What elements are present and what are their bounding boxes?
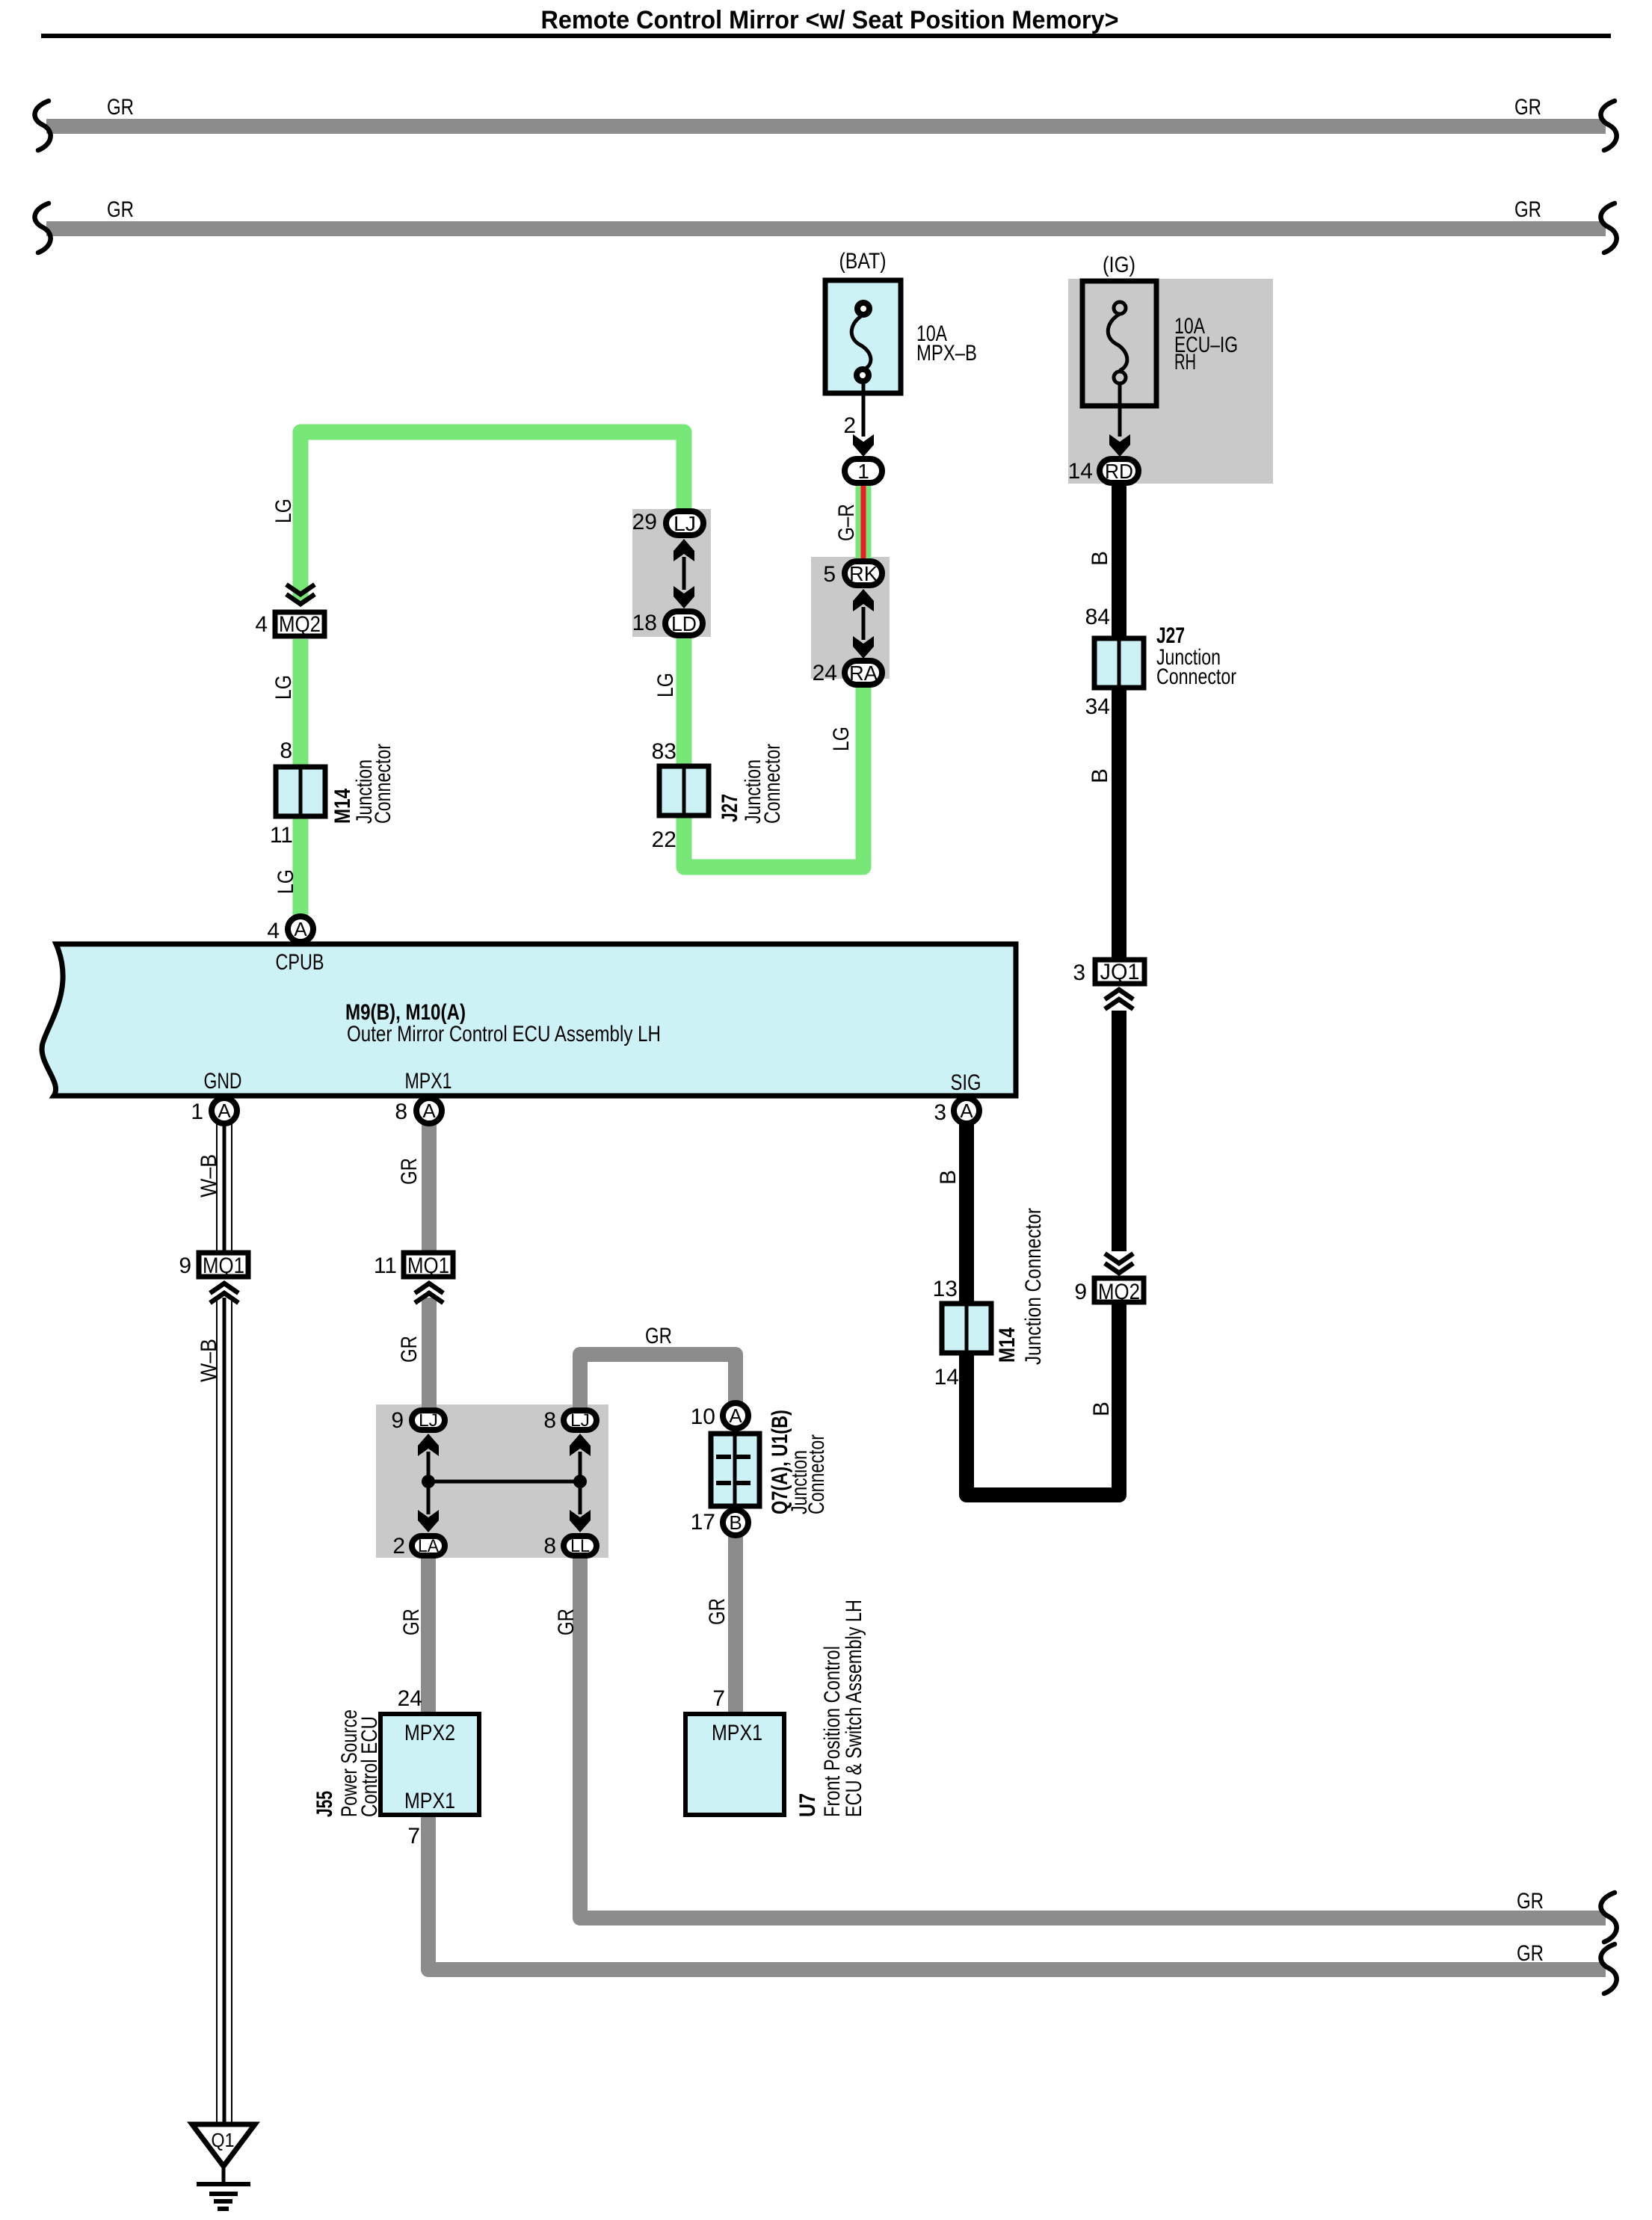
- svg-text:11: 11: [374, 1254, 397, 1278]
- label GR bus1 right: [1514, 95, 1541, 120]
- pin 14 M14: [934, 1365, 959, 1390]
- svg-text:8: 8: [543, 1534, 556, 1558]
- svg-text:Connector: Connector: [760, 744, 785, 824]
- svg-text:MPX–B: MPX–B: [916, 341, 977, 366]
- svg-text:2: 2: [392, 1534, 405, 1558]
- pin 8 LL: [543, 1534, 556, 1558]
- pin 8 LJ: [543, 1408, 556, 1433]
- svg-text:(IG): (IG): [1103, 253, 1135, 277]
- svg-text:MQ2: MQ2: [1098, 1280, 1140, 1304]
- double arrow RK to RA: [853, 589, 874, 659]
- pin 18 LD: [632, 611, 657, 635]
- svg-text:GR: GR: [554, 1609, 579, 1635]
- svg-text:22: 22: [652, 827, 676, 852]
- wire LG: MQ2(4) to CPUB A(4): [293, 639, 309, 918]
- label B vertical J27-JQ1: [1088, 768, 1112, 783]
- svg-text:8: 8: [280, 739, 292, 763]
- pin 83 J27: [652, 739, 676, 764]
- label A in circle (1): [218, 1100, 231, 1122]
- wire GR: LA(2) down to J55 MPX2: [421, 1555, 436, 1714]
- svg-text:17: 17: [691, 1510, 715, 1535]
- pin circle B(17): [723, 1510, 748, 1535]
- svg-text:Connector: Connector: [371, 744, 395, 824]
- svg-text:GR: GR: [1514, 95, 1541, 120]
- pin circle A(8) MPX1: [416, 1098, 442, 1123]
- shaded block around IG fuse: [1068, 279, 1273, 484]
- svg-text:GR: GR: [397, 1336, 422, 1363]
- wire GR: LJ(8) up, right, down to Q7 A(10): [580, 1354, 736, 1413]
- label GR vertical J55 wire: [399, 1609, 424, 1635]
- double chevron into MQ2(4): [286, 585, 315, 604]
- pin 29 LJ: [632, 510, 657, 534]
- double arrow LJ to LD: [674, 539, 694, 608]
- arrow into connector 1: [853, 434, 874, 457]
- connector oval LJ pin 9: [412, 1410, 445, 1430]
- pin 13 M14: [933, 1277, 958, 1301]
- svg-text:9: 9: [1074, 1280, 1087, 1304]
- ground Q1: [192, 2124, 255, 2209]
- wire GR: J55 MPX1(7) down, right to lower bus: [428, 1815, 1606, 1970]
- label B vertical RD-J27: [1088, 551, 1112, 566]
- svg-text:7: 7: [712, 1686, 725, 1711]
- label MQ1 (9): [203, 1254, 244, 1278]
- pin circle A(3) SIG: [954, 1098, 979, 1123]
- label RK: [849, 562, 878, 585]
- junction connector J27 (83/22): [659, 766, 709, 815]
- label MPX1 J55: [404, 1789, 455, 1813]
- label M14 Junction Connector vertical lower: [995, 1208, 1046, 1365]
- svg-text:MQ1: MQ1: [407, 1254, 449, 1278]
- svg-text:LG: LG: [653, 673, 678, 697]
- pin 34 J27: [1085, 694, 1110, 719]
- svg-text:Connector: Connector: [1156, 665, 1236, 689]
- label LG vertical below MQ2: [271, 675, 296, 700]
- svg-text:RK: RK: [849, 562, 878, 585]
- pin 3 JQ1: [1073, 961, 1085, 985]
- svg-text:3: 3: [934, 1100, 946, 1125]
- svg-text:Q1: Q1: [212, 2129, 235, 2151]
- label LL: [570, 1536, 590, 1556]
- connector box MQ2 pin 9: [1094, 1278, 1144, 1302]
- svg-text:B: B: [936, 1170, 961, 1185]
- label GR vertical below MQ1(11): [397, 1336, 422, 1363]
- pin 24 RA: [813, 661, 837, 685]
- label A in circle (4): [294, 918, 307, 940]
- connector box MQ1 pin 9: [199, 1253, 248, 1277]
- wire GR bus top 1: [46, 119, 1606, 134]
- tap wire between branches: [428, 1480, 580, 1484]
- label SIG: [951, 1070, 981, 1095]
- label B vertical SIG wire: [936, 1170, 961, 1185]
- double chevron below MQ1(11): [415, 1283, 443, 1303]
- label M9(B), M10(A): [345, 1000, 466, 1025]
- svg-text:14: 14: [934, 1365, 959, 1390]
- connector box MQ1 pin 11: [404, 1253, 453, 1277]
- break symbol lower bus GR upper right: [1601, 1893, 1617, 1942]
- pin 22 J27: [652, 827, 676, 852]
- svg-text:Remote Control Mirror <w/ Seat: Remote Control Mirror <w/ Seat Position …: [541, 6, 1119, 34]
- label LD: [671, 612, 697, 635]
- connector oval RD pin 14: [1100, 459, 1138, 483]
- label Outer Mirror Control ECU Assembly LH: [347, 1022, 661, 1046]
- svg-text:LJ: LJ: [570, 1410, 590, 1431]
- label 1 in oval: [857, 460, 869, 483]
- svg-text:18: 18: [632, 611, 657, 635]
- label J27 Junction Connector vertical: [718, 744, 785, 824]
- label GR lower bus upper: [1517, 1889, 1544, 1914]
- svg-text:3: 3: [1073, 961, 1085, 985]
- wire GR: LL(8) down, right to lower bus: [580, 1555, 1606, 1918]
- connector oval LJ pin 8: [564, 1410, 597, 1430]
- svg-text:(BAT): (BAT): [839, 249, 887, 274]
- svg-text:J27: J27: [718, 794, 742, 822]
- svg-text:Control ECU: Control ECU: [357, 1716, 382, 1817]
- svg-text:Junction Connector: Junction Connector: [1021, 1208, 1046, 1365]
- svg-text:10: 10: [691, 1405, 715, 1429]
- label GR vertical LL wire: [554, 1609, 579, 1635]
- svg-text:MPX2: MPX2: [404, 1721, 455, 1745]
- ECU box M9/M10 Outer Mirror Control ECU: [42, 944, 1016, 1096]
- label A in circle (3): [960, 1100, 973, 1122]
- label LA: [418, 1536, 439, 1556]
- wire B: below JQ1 down, left, up to SIG A(3): [967, 1011, 1119, 1495]
- wire GR bus top 2: [46, 221, 1606, 236]
- connector oval 1: [845, 459, 882, 483]
- wire LG: MQ2 chevron, up, across, down to LJ29: [300, 432, 684, 602]
- pin circle A(4) CPUB: [288, 916, 313, 942]
- svg-text:GR: GR: [1514, 197, 1541, 222]
- pin 10 Q7: [691, 1405, 715, 1429]
- label MPX1 pin: [405, 1069, 452, 1094]
- fuse ECU-IG (IG) box: [1082, 281, 1156, 437]
- svg-text:GR: GR: [397, 1158, 422, 1185]
- label M14 Junction Connector vertical: [330, 744, 395, 824]
- shaded block around LJ/LA/LJ/LL connector group: [376, 1405, 608, 1558]
- wire GR: below MQ1(11) to LJ(9): [422, 1298, 437, 1413]
- label 10A ECU-IG RH: [1174, 314, 1238, 374]
- junction connector M14 (8/11): [276, 767, 325, 816]
- double arrow LJ(9) to LA(2) with tap: [418, 1434, 439, 1532]
- connector oval RK pin 5: [845, 561, 882, 585]
- connector oval LD pin 18: [665, 611, 703, 635]
- wire W-B: below MQ1(9) down to ground Q1: [217, 1298, 232, 2124]
- svg-text:A: A: [294, 918, 307, 940]
- pin 7 J55: [407, 1824, 420, 1849]
- pin 84 J27: [1085, 605, 1110, 629]
- label GR lower bus lower: [1517, 1941, 1544, 1966]
- pin 11 M14: [270, 823, 293, 848]
- svg-text:24: 24: [813, 661, 837, 685]
- wire GR: Q7 B(17) down to U7 MPX1: [728, 1535, 743, 1714]
- svg-text:GND: GND: [204, 1069, 242, 1094]
- svg-text:J55: J55: [312, 1791, 337, 1817]
- pin 4 CPUB: [267, 919, 280, 943]
- svg-text:LG: LG: [274, 869, 298, 894]
- fuse MPX-B (BAT) box: [825, 280, 901, 437]
- label GR bus1 left: [107, 95, 134, 120]
- svg-text:7: 7: [407, 1824, 420, 1849]
- label LG vertical right leg: [829, 727, 854, 751]
- connector box MQ2 pin 4: [275, 612, 324, 636]
- label B in circle (17): [729, 1511, 742, 1534]
- wire GR: MPX1 A(8) to MQ1(11): [422, 1124, 437, 1251]
- label LG vertical top-left: [271, 499, 296, 523]
- pin 14 RD: [1068, 459, 1093, 484]
- label GND: [204, 1069, 242, 1094]
- svg-text:13: 13: [933, 1277, 958, 1301]
- label MPX1 U7: [712, 1721, 762, 1745]
- label GR vertical U7 wire: [705, 1598, 730, 1625]
- svg-text:5: 5: [823, 562, 836, 587]
- label (BAT): [839, 249, 887, 274]
- svg-text:A: A: [729, 1405, 742, 1427]
- pin 2 LA: [392, 1534, 405, 1558]
- svg-text:GR: GR: [107, 95, 134, 120]
- wire LG: LD(18) down, left corner, up to RA(24): [684, 635, 863, 867]
- wire W-B: GND A(1) to MQ1(9): [217, 1124, 232, 1251]
- svg-text:A: A: [218, 1100, 231, 1122]
- double arrow LJ(8) to LL(8) with tap: [570, 1434, 591, 1532]
- svg-text:Connector: Connector: [804, 1434, 829, 1514]
- svg-text:GR: GR: [645, 1324, 672, 1348]
- svg-text:34: 34: [1085, 694, 1110, 719]
- label (IG): [1103, 253, 1135, 277]
- wire B: RD(14) down to JQ1(3): [1112, 482, 1126, 959]
- svg-text:RD: RD: [1105, 460, 1133, 483]
- svg-text:24: 24: [398, 1686, 422, 1711]
- label GR bus2 left: [107, 197, 134, 222]
- svg-text:MPX1: MPX1: [712, 1721, 762, 1745]
- svg-text:11: 11: [270, 823, 293, 848]
- label LG vertical above J27: [653, 673, 678, 697]
- svg-text:RH: RH: [1174, 350, 1196, 374]
- svg-text:84: 84: [1085, 605, 1110, 629]
- svg-text:B: B: [1089, 1402, 1114, 1416]
- svg-text:W–B: W–B: [197, 1339, 221, 1382]
- svg-text:9: 9: [179, 1254, 191, 1278]
- junction connector J27 (84/34): [1094, 638, 1144, 688]
- label MQ1 (11): [407, 1254, 449, 1278]
- label Q7(A), U1(B) Junction Connector vertical: [768, 1410, 829, 1514]
- svg-text:JQ1: JQ1: [1100, 960, 1140, 984]
- double chevron into MQ2(9): [1105, 1254, 1133, 1273]
- svg-text:GR: GR: [399, 1609, 424, 1635]
- svg-text:4: 4: [267, 919, 280, 943]
- svg-text:B: B: [1088, 551, 1112, 566]
- pin 7 U7: [712, 1686, 725, 1711]
- svg-text:LJ: LJ: [419, 1410, 438, 1431]
- svg-text:A: A: [960, 1100, 973, 1122]
- pin circle A(10): [723, 1403, 748, 1428]
- svg-text:LD: LD: [671, 612, 697, 635]
- label A in circle (8): [422, 1100, 436, 1122]
- svg-text:8: 8: [395, 1100, 407, 1124]
- label B vertical above MQ2(9): [1089, 1402, 1114, 1416]
- svg-text:LG: LG: [271, 499, 296, 523]
- connector box JQ1 pin 3: [1095, 960, 1144, 984]
- break symbol bus2 right: [1601, 203, 1617, 253]
- junction connector M14 (13/14): [942, 1304, 991, 1353]
- break symbol bus1 left: [35, 101, 51, 150]
- svg-text:8: 8: [543, 1408, 556, 1433]
- svg-text:MPX1: MPX1: [404, 1789, 455, 1813]
- svg-text:LG: LG: [829, 727, 854, 751]
- svg-text:29: 29: [632, 510, 657, 534]
- break symbol lower bus GR lower right: [1601, 1944, 1617, 1994]
- label MQ2 (4): [279, 612, 321, 637]
- svg-text:LG: LG: [271, 675, 296, 700]
- label JQ1: [1100, 960, 1140, 984]
- pin 11 MQ1: [374, 1254, 397, 1278]
- double chevron below MQ1(9): [210, 1283, 238, 1303]
- pin 8 MPX1: [395, 1100, 407, 1124]
- pin 17 Q7: [691, 1510, 715, 1535]
- label MQ2 (9): [1098, 1280, 1140, 1304]
- svg-text:1: 1: [191, 1100, 203, 1124]
- connector oval LL pin 8: [564, 1536, 597, 1555]
- shaded block around LJ/LD connector pair: [632, 509, 711, 637]
- svg-text:GR: GR: [705, 1598, 730, 1625]
- connector oval RA pin 24: [845, 661, 882, 685]
- label Q1 ground: [212, 2129, 235, 2151]
- label LJ (29): [674, 512, 696, 535]
- label LJ (8): [570, 1410, 590, 1431]
- label MPX2 J55: [404, 1721, 455, 1745]
- svg-text:ECU & Switch Assembly LH: ECU & Switch Assembly LH: [842, 1600, 866, 1817]
- svg-text:W–B: W–B: [197, 1154, 221, 1197]
- svg-text:MQ1: MQ1: [203, 1254, 244, 1278]
- connector oval LJ pin 29: [666, 511, 703, 535]
- pin 3 SIG: [934, 1100, 946, 1125]
- pin 24 J55: [398, 1686, 422, 1711]
- svg-text:2: 2: [843, 413, 856, 438]
- ECU box U7 Front Position Control: [685, 1714, 784, 1815]
- svg-text:G–R: G–R: [834, 504, 859, 541]
- label RD: [1105, 460, 1133, 483]
- svg-text:B: B: [729, 1511, 742, 1534]
- svg-text:M14: M14: [995, 1328, 1020, 1363]
- svg-text:MQ2: MQ2: [279, 612, 321, 637]
- svg-text:SIG: SIG: [951, 1070, 981, 1095]
- pin 9 MQ1: [179, 1254, 191, 1278]
- svg-text:A: A: [422, 1100, 436, 1122]
- label GR bus2 right: [1514, 197, 1541, 222]
- svg-text:4: 4: [255, 612, 268, 637]
- svg-text:GR: GR: [107, 197, 134, 222]
- label W-B vertical lower: [197, 1339, 221, 1382]
- double chevron below JQ1: [1105, 990, 1133, 1009]
- pin 5 RK: [823, 562, 836, 587]
- label A in circle (10): [729, 1405, 742, 1427]
- svg-text:CPUB: CPUB: [276, 950, 324, 975]
- svg-text:RA: RA: [849, 662, 878, 685]
- svg-text:Outer Mirror Control ECU Assem: Outer Mirror Control ECU Assembly LH: [347, 1022, 661, 1046]
- svg-text:U7: U7: [795, 1793, 820, 1817]
- svg-text:83: 83: [652, 739, 676, 764]
- svg-text:GR: GR: [1517, 1889, 1544, 1914]
- wire G-R: fuse connector 1 to RK(5), green with red tracer: [856, 484, 872, 562]
- label J27 Junction Connector right: [1156, 623, 1236, 689]
- svg-text:GR: GR: [1517, 1941, 1544, 1966]
- label U7 Front Position Control ECU &amp; Switch Assembly LH vertical: [795, 1600, 866, 1817]
- label 10A MPX-B: [916, 321, 977, 366]
- pin 9 MQ2: [1074, 1280, 1087, 1304]
- label W-B vertical upper: [197, 1154, 221, 1197]
- pin 4 MQ2: [255, 612, 268, 637]
- label LG vertical above A4: [274, 869, 298, 894]
- shaded block around RK/RA connector pair: [811, 557, 890, 679]
- svg-text:LL: LL: [570, 1536, 590, 1556]
- arrow into RD: [1109, 434, 1130, 457]
- label GR horizontal: [645, 1324, 672, 1348]
- connector oval LA pin 2: [412, 1536, 445, 1555]
- svg-text:9: 9: [391, 1408, 404, 1433]
- label CPUB: [276, 950, 324, 975]
- pin 1 GND: [191, 1100, 203, 1124]
- svg-text:LJ: LJ: [674, 512, 696, 535]
- pin 8 M14: [280, 739, 292, 763]
- label J55 Power Source Control ECU vertical: [312, 1709, 382, 1817]
- break symbol bus1 right: [1601, 101, 1617, 150]
- svg-text:LA: LA: [418, 1536, 439, 1556]
- svg-text:1: 1: [857, 460, 869, 483]
- pin 2 fuse: [843, 413, 856, 438]
- pin 9 LJ: [391, 1408, 404, 1433]
- label GR vertical upper MPX1 wire: [397, 1158, 422, 1185]
- junction connector Q7(A), U1(B): [711, 1434, 759, 1506]
- pin circle A(1) GND: [212, 1098, 237, 1123]
- svg-text:B: B: [1088, 768, 1112, 783]
- svg-text:MPX1: MPX1: [405, 1069, 452, 1094]
- label LJ (9): [419, 1410, 438, 1431]
- label RA: [849, 662, 878, 685]
- label G-R vertical: [834, 504, 859, 541]
- title: [41, 6, 1611, 38]
- ECU box J55 Power Source Control ECU: [380, 1714, 479, 1815]
- break symbol bus2 left: [35, 203, 51, 253]
- svg-text:14: 14: [1068, 459, 1093, 484]
